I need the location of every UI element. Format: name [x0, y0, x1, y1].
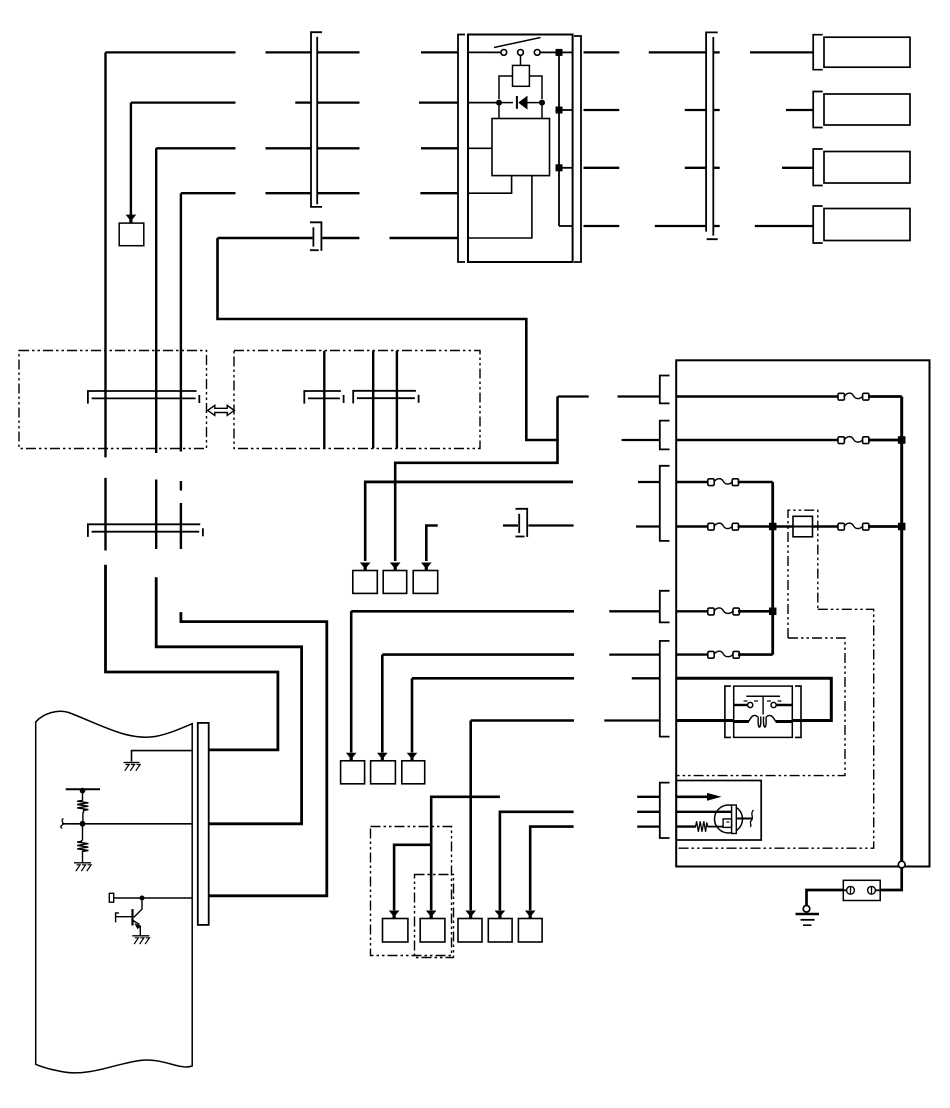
- wire x181 seg a: [180, 449, 182, 452]
- relay wire junction to edge: [562, 51, 573, 53]
- M1 dash b: [754, 700, 758, 702]
- relay wire contact to junction: [540, 51, 556, 53]
- junction square rowD midbus: [769, 523, 777, 531]
- box K1: [119, 223, 144, 246]
- arrow into low box2: [377, 753, 388, 761]
- wire rowG long: [412, 677, 574, 680]
- arrow into bottom box1: [389, 911, 400, 919]
- wire x156 through left unit: [155, 351, 157, 449]
- wire row1 from J1: [317, 51, 359, 53]
- wire row4 to relay: [420, 192, 458, 194]
- component M1 box: [734, 686, 793, 737]
- junction block outline: [676, 360, 929, 866]
- resistor R2 zigzag: [77, 840, 88, 853]
- transistor Q2 collector: [134, 898, 142, 917]
- J5 pin2: [868, 886, 876, 894]
- arrowhead right: [707, 793, 722, 801]
- bottom box4: [488, 919, 512, 943]
- relay right bracket: [574, 36, 581, 262]
- wire rowC inside: [676, 481, 709, 483]
- wire row3 to connector J3: [685, 167, 706, 169]
- wire rowD to component S1: [773, 525, 793, 527]
- squiggle wire end left: [61, 819, 64, 829]
- M1 center stem: [762, 696, 764, 714]
- wire rowB inside: [676, 439, 839, 441]
- relay left bracket: [458, 35, 465, 263]
- wire row4 to connector J1: [266, 192, 312, 194]
- mosfet unit box: [676, 781, 761, 841]
- wire row3 to load box3: [782, 167, 813, 169]
- junction square rowB bus: [898, 436, 906, 444]
- fusible link FL-A: [838, 393, 869, 400]
- wire row2 to relay: [419, 101, 458, 103]
- wire rowF to midbus: [738, 653, 773, 656]
- block bracket rowB: [660, 421, 670, 450]
- wire rowF seg2: [609, 653, 660, 655]
- arrow into low box3: [407, 753, 418, 761]
- drop rowH to bottom box3: [469, 721, 472, 911]
- wire run x105 to page row1: [106, 565, 278, 750]
- wire row4 from J3: [713, 225, 719, 227]
- mosfet gate box dash: [726, 821, 729, 823]
- bottom box1: [383, 919, 408, 943]
- supply rail bar: [66, 788, 100, 790]
- wire run block rowC to mid box1: [365, 482, 573, 561]
- junction square relay mid2: [556, 164, 563, 171]
- mosfet gate wire: [676, 811, 731, 813]
- wire rowH seg2: [604, 719, 660, 721]
- branch wire to bottom box1: [394, 845, 431, 910]
- wire row3 to connector J1: [266, 147, 312, 149]
- wire row3 from J1: [317, 147, 359, 149]
- relay coil stem: [520, 55, 522, 65]
- wire x181 seg b: [180, 481, 182, 491]
- relay switch blade: [494, 38, 541, 48]
- block bracket rowA: [660, 376, 670, 404]
- Q2 base pin tick: [116, 913, 119, 923]
- wire rowG inside thick loop: [676, 678, 831, 720]
- wire rowE seg2: [609, 610, 660, 612]
- wire R2 to ground: [82, 853, 84, 863]
- wire rowC long: [365, 481, 573, 484]
- M1 left contact wire: [734, 704, 748, 706]
- connector bar C4: [88, 524, 203, 537]
- Q2 emitter arrowhead: [134, 923, 141, 929]
- wire run row5 to block row B: [218, 238, 558, 440]
- chassis ground divider: [74, 863, 91, 871]
- wire row1 to connector J1: [266, 51, 312, 53]
- arrow into mid box3: [421, 563, 432, 571]
- bottom box3: [458, 919, 482, 943]
- wire resistor to gate box: [708, 826, 724, 828]
- junction square relay top: [556, 49, 563, 56]
- wire rowC seg2: [638, 481, 660, 483]
- wire rowB to bus: [868, 439, 902, 442]
- relay row5 step wire: [468, 176, 532, 238]
- wire S1 to fuse: [813, 525, 840, 527]
- wire node to R2: [82, 824, 84, 841]
- wire in right unit a: [323, 351, 325, 448]
- arrow into mid box2: [390, 563, 401, 571]
- wire rowD to bus: [868, 525, 902, 528]
- drop rowE to low box1: [350, 611, 353, 752]
- wire diode to dot: [528, 102, 540, 104]
- junction dot rail: [80, 788, 86, 794]
- connector J3 female half: [706, 32, 718, 239]
- arrow into bottom box2: [426, 911, 437, 919]
- connector J1 male half: [316, 37, 318, 205]
- bottom box2: [420, 919, 445, 943]
- wire row4 from J1: [317, 192, 359, 194]
- component M1 right bracket: [795, 686, 801, 737]
- wire x181 seg c: [180, 503, 182, 549]
- mosfet arrow wire: [676, 795, 708, 798]
- mosfet Q1 circle: [715, 805, 743, 833]
- fuse rowC: [708, 479, 739, 486]
- wire rowC to midbus: [738, 481, 773, 484]
- fusible link FL-D: [838, 523, 869, 530]
- dash-dot unit box right: [234, 351, 480, 449]
- load box3: [824, 152, 910, 184]
- wire in right unit b: [372, 351, 374, 448]
- wire row1 to load box1: [750, 51, 813, 53]
- load box1 bracket: [813, 35, 823, 70]
- relay row3 wire into module: [468, 147, 492, 149]
- block bracket rowE: [660, 591, 670, 623]
- fuse rowE: [708, 608, 740, 615]
- wire row2 from J1: [317, 101, 359, 103]
- wire row4 left: [181, 192, 236, 194]
- relay internal module box: [492, 119, 550, 176]
- wire row1 from J3: [713, 51, 719, 53]
- mosfet drain wire: [736, 818, 752, 820]
- wire row4 to load box4: [755, 225, 813, 227]
- wire relay-out row1: [584, 51, 620, 53]
- arrow into low box1: [346, 753, 357, 761]
- earth ground G1: [796, 914, 820, 925]
- mosfet channel bar: [732, 805, 737, 834]
- wire rowE to midbus: [738, 610, 773, 613]
- arrow into bottom box4: [495, 911, 506, 919]
- inline connector J4: [516, 509, 528, 537]
- diode D1 cathode bar: [516, 96, 518, 109]
- load box1: [824, 37, 910, 67]
- wire page row1 internal: [132, 751, 193, 762]
- wire J5 to ground: [807, 890, 844, 905]
- relay switch wire: [468, 51, 501, 53]
- wire row2 left: [131, 101, 236, 103]
- transistor Q2 base bar: [131, 909, 133, 925]
- fuse rowD: [708, 523, 739, 530]
- wire rowA to bus: [868, 395, 902, 398]
- load box4 bracket: [813, 206, 823, 243]
- wire row2 to connector J3: [685, 109, 706, 111]
- low box2: [371, 761, 396, 784]
- dash-dot path S1 to mosfet top: [676, 638, 845, 776]
- relay coil left lead: [499, 76, 513, 99]
- relay coil box: [513, 65, 530, 86]
- squiggle wire end: [750, 810, 753, 827]
- connector bar C3 in right unit: [353, 391, 418, 404]
- wire rowA inside: [676, 395, 839, 397]
- wire relay-out row3: [584, 167, 620, 169]
- component M1 left bracket: [725, 686, 731, 737]
- wire page row3 internal: [114, 897, 193, 899]
- connector bar C2 in right unit: [304, 391, 343, 404]
- mosfet source wire: [676, 825, 696, 827]
- relay wire out row4: [559, 225, 573, 227]
- wire in right unit c: [396, 351, 398, 448]
- relay wire out row3: [559, 167, 573, 169]
- junction square relay mid1: [556, 107, 563, 114]
- diode D1 triangle: [518, 96, 527, 110]
- wire rowE inside: [676, 610, 709, 612]
- resistor R1 zigzag: [77, 801, 88, 814]
- M1 dash c: [767, 700, 771, 702]
- junction dot divider: [80, 821, 86, 827]
- block bracket rowF-H: [660, 641, 670, 737]
- wire run mos row3 to bottom box5: [530, 827, 573, 911]
- midbus vertical: [771, 482, 774, 655]
- pin box: [109, 893, 113, 902]
- J5 pin1: [847, 886, 855, 894]
- relay switch contacts: [501, 50, 507, 56]
- wire rowA seg1: [558, 395, 589, 397]
- wire relay-out row2: [584, 109, 620, 111]
- chassis ground inside page top: [124, 763, 141, 771]
- wire rowH inside: [676, 719, 734, 722]
- wire rowD inside: [676, 525, 709, 527]
- dash-dot shield box inner: [415, 875, 454, 958]
- M1 T-bar: [746, 695, 780, 697]
- wire row3 from J3: [713, 167, 719, 169]
- relay diode row wire left: [468, 102, 497, 104]
- low box3: [402, 761, 425, 784]
- Q2 emitter: [133, 921, 140, 925]
- wire R1 to node: [82, 813, 84, 824]
- arrow into bottom box3: [465, 911, 476, 919]
- wire run block rowA to mid box2: [395, 397, 557, 562]
- wire dot-left down to module: [498, 105, 500, 119]
- load box4: [824, 209, 910, 241]
- node circle at block bottom: [898, 861, 905, 868]
- relay row4 step wire: [468, 176, 512, 194]
- junction square rowE midbus: [769, 608, 777, 616]
- wire mos row3 seg2: [637, 825, 660, 827]
- wire row2 from J3: [713, 109, 719, 111]
- wire row1 left: [106, 51, 236, 53]
- page connector bar: [198, 723, 209, 925]
- load box2: [824, 94, 910, 125]
- wire run x156 to page row2: [156, 577, 301, 824]
- wire mos row1 seg2: [637, 796, 660, 798]
- wire rowA seg2: [618, 395, 660, 397]
- low box1: [341, 761, 365, 784]
- connector J3 male half: [712, 37, 714, 236]
- load box2 bracket: [813, 92, 823, 128]
- wire emitter to ground: [139, 926, 141, 936]
- arrow into bottom box5: [525, 911, 536, 919]
- page outline: [36, 711, 193, 1073]
- wire x156 seg b: [155, 480, 157, 550]
- M1 coils: [749, 715, 759, 721]
- wire rowD to J4: [503, 524, 518, 526]
- drop rowF to low box2: [381, 655, 384, 753]
- double arrow symbol: [208, 405, 235, 415]
- drop rowG to low box3: [411, 678, 414, 752]
- connector J1 female half: [311, 32, 322, 207]
- M1 bottom left wire: [734, 720, 749, 723]
- M1 contacts: [748, 702, 753, 707]
- wire rowF long: [382, 653, 574, 656]
- wire bus to connector J5: [880, 868, 902, 890]
- mid box3: [413, 571, 438, 594]
- wire drop row1 x105: [104, 52, 106, 351]
- wire row3 left: [156, 147, 235, 149]
- relay right bus vertical: [558, 52, 560, 226]
- wire row5 left segment: [218, 237, 313, 239]
- wire row5 after J2: [322, 237, 359, 239]
- component S1 small box: [793, 516, 813, 537]
- wire drop row3 x156: [155, 148, 157, 351]
- wire page row2 internal: [62, 823, 192, 825]
- wire rowG seg2: [632, 677, 660, 679]
- dash-dot shield box outer: [371, 827, 452, 956]
- wire x105 seg b: [104, 478, 106, 551]
- relay coil right lead: [529, 76, 542, 99]
- load box3 bracket: [813, 149, 823, 186]
- dash-dot unit box left: [19, 351, 207, 449]
- wire mos row2 seg2: [637, 811, 660, 813]
- wire row2 stub to connector J1: [295, 101, 311, 103]
- M1 dash a: [744, 700, 748, 702]
- junction dot diode left: [496, 100, 502, 106]
- arrow into mid box1: [360, 563, 371, 571]
- wire run rowD stub to mid box3: [426, 526, 437, 562]
- chassis ground Q2: [132, 936, 149, 944]
- ground node circle: [803, 906, 810, 913]
- bottom box5: [518, 919, 542, 943]
- mid box2: [383, 571, 407, 594]
- resistor R-mos zigzag: [696, 821, 708, 832]
- wire rowE long: [351, 610, 574, 613]
- wire through S1: [793, 526, 813, 528]
- wire row1 to relay: [421, 51, 458, 53]
- wire row5 to relay: [390, 237, 459, 239]
- mid box1: [353, 571, 378, 594]
- arrow into box K1: [126, 215, 137, 223]
- wire dot-right down to module: [541, 105, 543, 119]
- relay R1 outline: [468, 35, 573, 263]
- wire row4 to connector J3: [655, 225, 706, 227]
- dash-dot path S1 to mosfet bottom: [676, 609, 874, 848]
- block bracket rowC-D: [660, 466, 670, 541]
- wire x105 through left unit: [104, 351, 106, 449]
- junction dot diode right: [539, 100, 545, 106]
- junction dot collector: [140, 896, 145, 901]
- wire rowB seg: [622, 439, 660, 441]
- wire rowF inside: [676, 653, 709, 655]
- wire run x181 to page row3: [181, 612, 327, 896]
- wire drop row4 x181: [180, 193, 182, 351]
- wire rowD from J4: [528, 524, 573, 526]
- wire rowD seg2: [636, 525, 660, 527]
- block right bus vertical: [900, 397, 903, 862]
- wire drop row2 x130: [130, 103, 132, 215]
- dash-dot box around S1: [788, 510, 818, 638]
- wire row2 to load box2: [786, 109, 813, 111]
- wire rail to R1: [82, 789, 84, 801]
- M1 dash d: [778, 700, 782, 702]
- fusible link FL-B: [838, 437, 869, 444]
- wire run mos row2 to bottom box4: [500, 812, 574, 910]
- wire x181 through left unit: [180, 351, 182, 449]
- wire rowH long: [471, 719, 574, 722]
- wire x105 seg a: [104, 449, 106, 458]
- wire relay-out row4: [584, 225, 620, 227]
- wire row3 to relay: [421, 147, 458, 149]
- block bracket mosfet rows: [660, 783, 670, 838]
- wire dot to diode: [502, 102, 514, 104]
- connector J5 2-pin box: [843, 880, 880, 900]
- inline connector J2: [310, 222, 322, 251]
- connector bar C1 in left unit: [88, 391, 199, 404]
- junction square rowD bus: [898, 523, 906, 531]
- J5 pin stubs: [843, 889, 846, 891]
- relay wire out row2: [559, 109, 573, 111]
- Q2 base lead: [116, 916, 133, 918]
- wire x156 seg a: [155, 449, 157, 454]
- M1 right contact wire: [776, 704, 792, 706]
- M1 bottom right wire: [776, 720, 793, 723]
- fuse rowF: [708, 651, 740, 658]
- wire row1 to connector J3: [649, 51, 706, 53]
- wire run mos row1 to shielded grounds: [431, 797, 500, 910]
- wire rowD to midbus: [738, 525, 773, 528]
- mosfet gate box: [723, 819, 732, 828]
